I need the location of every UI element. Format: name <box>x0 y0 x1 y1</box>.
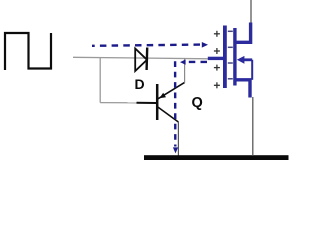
transistor Q (PNP) base bar <box>156 84 159 120</box>
wire: source down to ground <box>252 97 254 156</box>
wire: emitter up to gate wire <box>184 58 186 82</box>
dashed arrow: discharge down through Q to ground <box>173 61 178 153</box>
wire: main horizontal drive wire <box>73 57 210 59</box>
wire: horizontal to transistor base <box>100 102 137 104</box>
square wave source icon <box>5 33 51 70</box>
MOSFET channel bar <box>233 28 236 86</box>
dashed arrow: discharge from gate leftward <box>180 60 207 65</box>
transistor Q collector lead <box>158 107 179 122</box>
dashed arrow: charge current into gate <box>92 42 208 48</box>
MOSFET drain stub <box>236 23 251 43</box>
gate charge plus signs <box>214 31 220 89</box>
MOSFET gate bar <box>223 26 227 89</box>
MOSFET body stub with arrow <box>237 56 252 80</box>
gate charge minus signs <box>228 31 233 79</box>
svg-text:Q: Q <box>192 95 203 111</box>
wire: branch down to base network <box>99 58 101 103</box>
wire: collector down to ground <box>177 122 179 156</box>
ground bar <box>144 155 289 160</box>
diode D <box>135 48 147 72</box>
transistor Q emitter lead with arrow into base <box>158 82 185 98</box>
transistor Q base lead <box>137 102 157 104</box>
svg-text:D: D <box>135 76 145 92</box>
wire: drain up to top edge <box>250 0 252 23</box>
MOSFET source stub <box>236 80 250 98</box>
MOSFET gate stub <box>208 57 224 60</box>
